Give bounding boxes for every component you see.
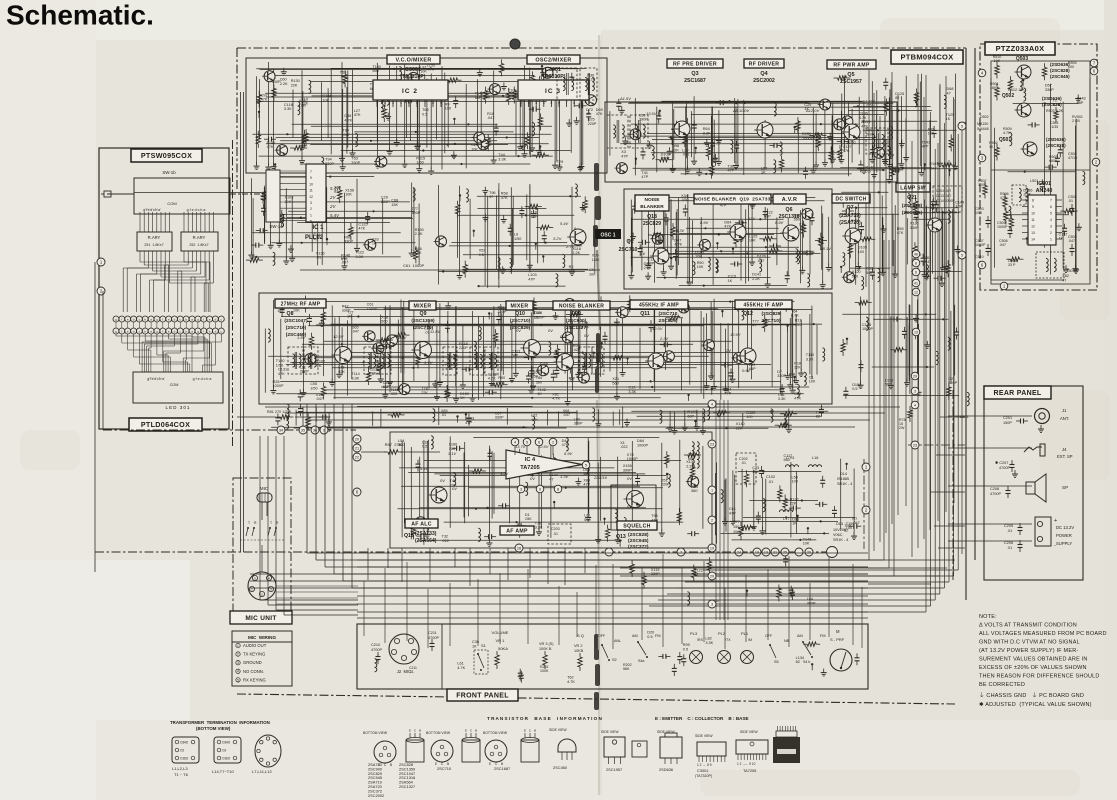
svg-text:1: 1: [520, 101, 522, 105]
svg-text:4.7K: 4.7K: [567, 680, 575, 684]
svg-text:RX KEYING: RX KEYING: [243, 677, 266, 682]
svg-text:0.6V: 0.6V: [742, 368, 751, 373]
svg-text:560: 560: [381, 320, 387, 324]
svg-text:2V: 2V: [329, 204, 336, 209]
svg-text:1.7V: 1.7V: [424, 360, 433, 365]
svg-text:33 P: 33 P: [1008, 263, 1016, 267]
svg-text:7: 7: [424, 101, 426, 105]
svg-text:V.C.O/MIXER: V.C.O/MIXER: [395, 57, 431, 63]
svg-text:BE CORRECTED: BE CORRECTED: [979, 682, 1025, 688]
svg-text:9: 9: [310, 176, 312, 180]
svg-text:4700P: 4700P: [371, 648, 382, 652]
svg-text:1K: 1K: [460, 396, 465, 400]
svg-text:0.5: 0.5: [479, 253, 484, 257]
svg-text:C201: C201: [1003, 416, 1012, 420]
svg-text:330P: 330P: [351, 161, 360, 165]
svg-text:150: 150: [733, 525, 739, 529]
svg-text:47K: 47K: [358, 227, 365, 231]
svg-text:.047: .047: [316, 397, 323, 401]
svg-text:1K: 1K: [372, 242, 377, 246]
svg-text:1: 1: [1050, 238, 1052, 242]
svg-text:(TA7310P): (TA7310P): [401, 74, 426, 80]
svg-text:6: 6: [915, 270, 917, 274]
svg-text:O2: O2: [180, 749, 184, 753]
svg-text:E : EMITTER C : COLLECTOR: E : EMITTER C : COLLECTOR B : BASE: [655, 716, 749, 721]
svg-text:68P: 68P: [531, 215, 538, 219]
svg-text:10KB: 10KB: [574, 649, 584, 653]
svg-text:2: 2: [384, 101, 386, 105]
svg-text:2.3V: 2.3V: [659, 336, 669, 341]
svg-text:1: 1: [237, 644, 239, 648]
svg-text:5: 5: [526, 440, 528, 444]
svg-text:4: 4: [400, 101, 402, 105]
svg-text:2.2K: 2.2K: [280, 82, 288, 86]
svg-text:Q502: Q502: [1002, 93, 1014, 99]
svg-text:.01: .01: [424, 331, 429, 335]
svg-text:3: 3: [1050, 225, 1052, 229]
svg-text:10K: 10K: [322, 98, 329, 102]
svg-text:330P: 330P: [777, 374, 786, 378]
svg-text:3.2∨: 3.2∨: [553, 236, 562, 241]
svg-text:2V: 2V: [725, 348, 731, 353]
svg-text:.047: .047: [487, 116, 494, 120]
svg-text:VOLUME: VOLUME: [492, 630, 509, 635]
svg-text:455KHz IF AMP: 455KHz IF AMP: [639, 302, 679, 308]
svg-text:Q3: Q3: [691, 71, 698, 77]
svg-text:22K: 22K: [421, 391, 428, 395]
svg-text:5: 5: [961, 124, 963, 128]
svg-text:82: 82: [796, 660, 800, 664]
svg-text:7: 7: [310, 170, 312, 174]
svg-text:12.6V: 12.6V: [538, 444, 549, 449]
svg-text:1000P: 1000P: [367, 307, 378, 311]
svg-text:/TX: /TX: [725, 638, 731, 642]
svg-text:4: 4: [914, 403, 916, 407]
svg-text:560: 560: [852, 274, 858, 278]
svg-text:3.3K: 3.3K: [356, 255, 364, 259]
svg-text:C3001: C3001: [405, 67, 421, 73]
svg-text:NOISE: NOISE: [645, 197, 661, 203]
svg-text:4.7K: 4.7K: [488, 377, 496, 381]
svg-text:.022: .022: [390, 392, 397, 396]
svg-text:4.7K: 4.7K: [859, 116, 867, 120]
svg-text:0V: 0V: [440, 478, 445, 483]
svg-text:1.3V: 1.3V: [560, 474, 569, 479]
svg-text:✱ ADJUSTED (TYPICAL VALUE SHO: ✱ ADJUSTED (TYPICAL VALUE SHOWN): [979, 701, 1092, 708]
svg-text:PL2: PL2: [718, 631, 726, 636]
svg-text:GROUND: GROUND: [243, 660, 262, 665]
svg-text:34: 34: [279, 428, 283, 432]
svg-text:0.5: 0.5: [852, 387, 857, 391]
svg-text:1000P: 1000P: [637, 443, 648, 447]
svg-text:TX KEYING: TX KEYING: [243, 652, 265, 657]
svg-text:220P: 220P: [588, 122, 597, 126]
svg-text:SR1K - 4: SR1K - 4: [837, 482, 852, 486]
svg-text:Schematic.: Schematic.: [6, 0, 154, 31]
svg-text:S1: S1: [481, 643, 487, 648]
svg-text:25: 25: [783, 550, 787, 554]
svg-text:4: 4: [711, 402, 713, 406]
svg-text:ANT.: ANT.: [1060, 416, 1069, 421]
svg-text:1 2 -- 8 9: 1 2 -- 8 9: [697, 763, 712, 767]
svg-text:2SC1687: 2SC1687: [684, 78, 706, 84]
svg-text:f: f: [162, 317, 163, 321]
svg-text:1W: 1W: [733, 530, 739, 534]
svg-text:13.7V: 13.7V: [515, 444, 526, 449]
svg-text:2SC1957: 2SC1957: [606, 767, 622, 772]
svg-text:2SC829: 2SC829: [643, 221, 661, 227]
svg-text:2.4V: 2.4V: [397, 335, 407, 340]
svg-text:RF PWR AMP: RF PWR AMP: [833, 62, 869, 68]
svg-text:1 2 ---- 9 10: 1 2 ---- 9 10: [737, 762, 756, 766]
svg-text:23: 23: [913, 443, 917, 447]
svg-text:390P: 390P: [412, 211, 421, 215]
svg-text:330P: 330P: [342, 309, 351, 313]
svg-text:M: M: [836, 629, 840, 634]
svg-text:MIC: MIC: [260, 486, 269, 491]
svg-text:BLANKER: BLANKER: [640, 204, 664, 210]
svg-text:2SC710: 2SC710: [437, 766, 452, 771]
svg-text:0V: 0V: [530, 476, 535, 481]
svg-text:0.5: 0.5: [683, 647, 688, 651]
svg-text:4.7K: 4.7K: [552, 397, 560, 401]
svg-text:D14: D14: [840, 472, 847, 476]
svg-text:2: 2: [528, 101, 530, 105]
svg-text:T501: T501: [1066, 269, 1075, 273]
svg-text:12.6V: 12.6V: [730, 332, 741, 337]
svg-text:Δ VOLTS AT TRANSMIT CONDITION: Δ VOLTS AT TRANSMIT CONDITION: [979, 623, 1077, 629]
svg-text:1/50: 1/50: [276, 363, 283, 367]
svg-text:560: 560: [372, 69, 378, 73]
svg-text:.022: .022: [682, 153, 689, 157]
svg-text:100K: 100K: [540, 669, 549, 673]
svg-text:0.5: 0.5: [422, 112, 427, 116]
svg-text:ALL VOLTAGES MEASURED FROM PC: ALL VOLTAGES MEASURED FROM PC BOARD: [979, 631, 1107, 637]
svg-text:10K: 10K: [695, 255, 702, 259]
svg-text:2SC710): 2SC710): [762, 318, 781, 324]
svg-text:36: 36: [313, 428, 317, 432]
svg-text:NOTE:: NOTE:: [979, 614, 997, 620]
svg-text:S4a: S4a: [638, 659, 644, 663]
svg-text:47P: 47P: [528, 277, 535, 281]
svg-text:0V: 0V: [627, 476, 632, 481]
svg-text:47P: 47P: [922, 145, 929, 149]
svg-text:(2SC945): (2SC945): [628, 538, 649, 544]
svg-text:3.3K: 3.3K: [284, 107, 292, 111]
svg-text:1000P: 1000P: [862, 327, 873, 331]
svg-text:g f e d c b a: g f e d c b a: [193, 377, 212, 381]
svg-text:+: +: [1054, 518, 1057, 524]
svg-text:Q15: Q15: [404, 533, 414, 539]
svg-text:68P: 68P: [475, 96, 482, 100]
svg-text:THEN REASON FOR DIFFERENCE SHO: THEN REASON FOR DIFFERENCE SHOULD: [979, 674, 1100, 680]
svg-text:AUDIO OUT: AUDIO OUT: [243, 643, 267, 648]
svg-text:22: 22: [355, 455, 359, 459]
svg-text:GND WITH D.C VTVM AT NO SIGNAL: GND WITH D.C VTVM AT NO SIGNAL: [979, 640, 1080, 646]
svg-text:8: 8: [432, 101, 434, 105]
svg-text:L7,L11,L12: L7,L11,L12: [252, 769, 272, 774]
svg-text:3: 3: [310, 201, 312, 205]
svg-text:.047: .047: [1068, 239, 1075, 243]
svg-text:47K: 47K: [1000, 196, 1007, 200]
svg-text:47K: 47K: [267, 145, 274, 149]
svg-text:2SC460: 2SC460: [553, 765, 568, 770]
svg-text:(2SC710): (2SC710): [510, 318, 531, 324]
svg-text:4O: 4O: [184, 741, 189, 745]
svg-text:0V: 0V: [452, 486, 457, 491]
svg-text:13.6V: 13.6V: [646, 111, 657, 116]
svg-text:4700P: 4700P: [999, 466, 1010, 470]
svg-text:47K: 47K: [354, 113, 361, 117]
svg-text:10: 10: [309, 182, 313, 186]
svg-text:C204 .047: C204 .047: [936, 189, 951, 193]
svg-text:g'f'e'd'c'b'a': g'f'e'd'c'b'a': [147, 377, 165, 381]
svg-text:4.7K: 4.7K: [427, 68, 435, 72]
svg-text:(2SC828): (2SC828): [1042, 102, 1062, 107]
svg-text:3.3K: 3.3K: [778, 397, 786, 401]
svg-text:3: 3: [520, 487, 522, 491]
svg-text:PTSW095COX: PTSW095COX: [141, 151, 192, 160]
svg-text:R.ARY: R.ARY: [148, 235, 161, 240]
svg-text:15K: 15K: [415, 251, 422, 255]
svg-text:46: 46: [914, 252, 918, 256]
svg-text:B: B: [475, 729, 477, 733]
svg-text:68P: 68P: [383, 385, 390, 389]
svg-text:Q10: Q10: [515, 311, 525, 317]
svg-text:REAR PANEL: REAR PANEL: [994, 390, 1042, 397]
svg-text:f: f: [121, 329, 122, 333]
svg-text:E: E: [409, 729, 411, 733]
svg-text:1K: 1K: [347, 315, 352, 319]
svg-text:1K: 1K: [761, 171, 766, 175]
svg-text:100: 100: [589, 272, 595, 276]
svg-text:47: 47: [549, 477, 553, 481]
svg-text:TA7205: TA7205: [520, 465, 540, 471]
svg-text:22K: 22K: [790, 502, 797, 506]
svg-text:560: 560: [584, 518, 590, 522]
svg-text:1K: 1K: [472, 644, 477, 648]
svg-text:AF ALC: AF ALC: [411, 521, 432, 527]
svg-text:22K: 22K: [794, 366, 801, 370]
svg-text:Q9: Q9: [420, 311, 427, 317]
svg-text:47K: 47K: [843, 149, 850, 153]
svg-text:47: 47: [586, 112, 590, 116]
svg-text:4.7K: 4.7K: [1003, 131, 1011, 135]
svg-text:330P: 330P: [325, 162, 334, 166]
svg-text:2SD636: 2SD636: [659, 767, 673, 772]
svg-text:2SC2002: 2SC2002: [368, 793, 384, 798]
svg-text:MIC UNIT: MIC UNIT: [245, 615, 276, 622]
svg-text:1/50: 1/50: [416, 161, 423, 165]
svg-text:10K: 10K: [345, 193, 352, 197]
svg-text:10K: 10K: [792, 480, 799, 484]
svg-text:9: 9: [539, 487, 541, 491]
svg-text:82: 82: [895, 96, 899, 100]
svg-text:560: 560: [536, 380, 542, 384]
svg-text:3: 3: [535, 101, 537, 105]
svg-text:35: 35: [301, 428, 305, 432]
svg-text:47/10: 47/10: [1068, 156, 1077, 160]
svg-text:C510: C510: [975, 255, 984, 259]
svg-text:2SC2002: 2SC2002: [753, 78, 775, 84]
svg-text:100: 100: [809, 380, 815, 384]
svg-text:6: 6: [416, 101, 418, 105]
svg-text:23: 23: [710, 442, 714, 446]
svg-text:220P: 220P: [459, 346, 468, 350]
svg-text:6O: 6O: [184, 757, 189, 761]
svg-text:2.2K: 2.2K: [572, 251, 580, 255]
svg-text:OSC2/MIXER: OSC2/MIXER: [535, 57, 571, 63]
svg-text:3: 3: [914, 389, 916, 393]
svg-text:8: 8: [557, 487, 559, 491]
svg-text:0.5: 0.5: [647, 635, 652, 639]
svg-text:R77: R77: [733, 520, 740, 524]
svg-text:3: 3: [392, 101, 394, 105]
svg-text:390P: 390P: [623, 468, 632, 472]
svg-text:41: 41: [914, 281, 918, 285]
svg-text:3.1V: 3.1V: [448, 451, 457, 456]
svg-text:11: 11: [1031, 218, 1035, 222]
svg-text:O2: O2: [222, 749, 226, 753]
svg-text:POWER: POWER: [1056, 533, 1072, 538]
svg-text:.01: .01: [1007, 529, 1012, 533]
svg-text:.047: .047: [999, 243, 1006, 247]
svg-text:47K: 47K: [501, 196, 508, 200]
svg-text:COM: COM: [167, 201, 176, 206]
svg-text:AN240: AN240: [1036, 188, 1053, 194]
svg-text:PLL02: PLL02: [305, 235, 324, 241]
svg-text:⏚ CHASSIS GND ⏚ PC BOARD GND: ⏚ CHASSIS GND ⏚ PC BOARD GND: [979, 692, 1084, 699]
svg-text:47: 47: [489, 195, 493, 199]
svg-text:5: 5: [408, 101, 410, 105]
svg-text:330P: 330P: [1045, 88, 1054, 92]
svg-text:1K: 1K: [317, 364, 322, 368]
svg-text:S2: S2: [612, 658, 617, 662]
svg-text:PTZZ033A0X: PTZZ033A0X: [996, 44, 1045, 53]
svg-text:FRONT PANEL: FRONT PANEL: [456, 693, 509, 700]
svg-text:2W: 2W: [899, 426, 905, 430]
svg-text:Q18: Q18: [647, 214, 657, 220]
svg-text:PTLD064COX: PTLD064COX: [141, 420, 190, 429]
svg-text:Q20: Q20: [571, 311, 581, 317]
svg-text:.022: .022: [340, 75, 347, 79]
svg-text:4O: 4O: [226, 741, 231, 745]
svg-text:Δ8.1V: Δ8.1V: [819, 246, 831, 251]
svg-text:5: 5: [237, 678, 239, 682]
svg-text:680K: 680K: [1049, 159, 1058, 163]
svg-text:47K: 47K: [261, 98, 268, 102]
svg-text:SIDE VIEW: SIDE VIEW: [695, 734, 713, 738]
svg-text:0V: 0V: [584, 333, 589, 338]
svg-text:220P: 220P: [381, 200, 390, 204]
svg-text:4.7K: 4.7K: [674, 243, 682, 247]
svg-text:15K: 15K: [525, 517, 532, 521]
svg-text:B: B: [534, 729, 536, 733]
svg-text:47P: 47P: [729, 511, 736, 515]
svg-text:5: 5: [585, 463, 587, 467]
svg-text:22K: 22K: [672, 148, 679, 152]
svg-text:2SC710: 2SC710: [619, 247, 638, 253]
svg-text:100: 100: [1068, 65, 1074, 69]
svg-text:R57 27K: R57 27K: [385, 442, 402, 447]
svg-text:Q501: Q501: [999, 137, 1011, 143]
svg-text:251 1.8Kx7: 251 1.8Kx7: [144, 243, 163, 247]
svg-text:100: 100: [858, 250, 864, 254]
svg-text:IC 2: IC 2: [402, 88, 418, 95]
svg-text:E: E: [465, 729, 467, 733]
svg-text:2.2K: 2.2K: [415, 232, 423, 236]
svg-text:4.7K: 4.7K: [344, 118, 352, 122]
svg-text:4700P: 4700P: [428, 636, 439, 640]
svg-text:1/50: 1/50: [310, 386, 317, 390]
svg-text:1000P: 1000P: [534, 315, 545, 319]
svg-text:28: 28: [517, 546, 521, 550]
svg-text:8: 8: [1032, 199, 1034, 203]
svg-text:(2SC710: (2SC710: [659, 311, 678, 317]
svg-text:Q13: Q13: [616, 534, 626, 540]
svg-text:ANL: ANL: [614, 639, 621, 643]
svg-text:1000P: 1000P: [802, 136, 813, 140]
svg-text:(2SC710): (2SC710): [286, 325, 307, 331]
svg-text:11: 11: [309, 189, 313, 193]
svg-text:3.3K: 3.3K: [628, 390, 636, 394]
svg-text:✱ C207: ✱ C207: [995, 461, 1008, 465]
svg-text:47P: 47P: [621, 154, 628, 158]
svg-text:(2SA733): (2SA733): [415, 531, 437, 537]
svg-text:Q4: Q4: [760, 71, 767, 77]
svg-text:T R A N S I S T O R B A S: T R A N S I S T O R B A S E I N F O R M …: [487, 716, 603, 721]
svg-text:8.9V: 8.9V: [775, 220, 784, 225]
svg-text:4: 4: [237, 670, 239, 674]
svg-text:J1: J1: [1062, 408, 1067, 413]
svg-text:.01: .01: [316, 256, 321, 260]
svg-text:IC 3: IC 3: [545, 88, 561, 95]
svg-text:47P: 47P: [641, 175, 648, 179]
svg-text:C61 1000P: C61 1000P: [403, 263, 424, 268]
svg-text:6.9V: 6.9V: [564, 451, 573, 456]
svg-text:Q503: Q503: [1016, 56, 1028, 62]
svg-text:.022: .022: [442, 539, 449, 543]
svg-text:SUREMENT VALUES OBTAINED ARE I: SUREMENT VALUES OBTAINED ARE IN: [979, 657, 1088, 663]
svg-text:22K: 22K: [291, 83, 298, 87]
svg-text:1K: 1K: [989, 145, 994, 149]
svg-text:0.5: 0.5: [422, 445, 427, 449]
svg-text:1/50: 1/50: [514, 237, 521, 241]
svg-text:3.3K: 3.3K: [703, 131, 711, 135]
svg-text:4700P: 4700P: [990, 492, 1001, 496]
svg-text:2SC1687: 2SC1687: [494, 766, 510, 771]
svg-text:2 KB: 2 KB: [1072, 119, 1080, 123]
svg-text:B: B: [390, 763, 392, 767]
svg-text:V06C: V06C: [833, 533, 843, 537]
svg-text:/M: /M: [748, 638, 752, 642]
svg-text:15K: 15K: [583, 472, 590, 476]
svg-text:6: 6: [915, 261, 917, 265]
svg-text:Δ8.7V: Δ8.7V: [847, 218, 859, 223]
svg-text:2: 2: [310, 207, 312, 211]
svg-text:6O: 6O: [226, 757, 231, 761]
svg-text:4.2V: 4.2V: [500, 471, 509, 476]
svg-text:T1 ~ T6: T1 ~ T6: [174, 772, 189, 777]
svg-text:D502: D502: [980, 115, 989, 119]
svg-text:1/50: 1/50: [848, 140, 855, 144]
svg-text:NO CONN.: NO CONN.: [243, 669, 264, 674]
svg-text:Q11: Q11: [640, 311, 650, 317]
svg-text:C H1: C H1: [786, 456, 795, 460]
svg-text:22C/16: 22C/16: [593, 475, 608, 480]
svg-text:LAMP SW: LAMP SW: [900, 185, 926, 191]
svg-text:IC501: IC501: [1037, 181, 1051, 187]
